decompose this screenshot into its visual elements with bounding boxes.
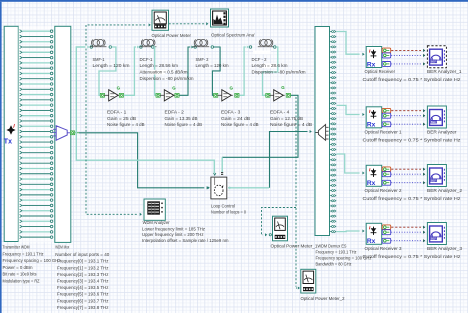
svg-text:Optical Spectrum Ana': Optical Spectrum Ana' [211,33,255,38]
svg-text:Frequency[3] = 193.4 THz: Frequency[3] = 193.4 THz [57,279,109,284]
svg-text:Frequency[5] = 193.6 THz: Frequency[5] = 193.6 THz [57,292,109,297]
wire loop control output [228,187,269,189]
monitor dashed arrow into optical power meter 2 [298,286,300,289]
svg-text:Rx: Rx [367,238,376,245]
svg-text:EDFA - 4: EDFA - 4 [270,110,290,115]
wire demux port to optical receiver 3 [337,230,360,233]
svg-text:G: G [117,85,121,90]
svg-text:Upper frequency limit = 200 T: Upper frequency limit = 200 THz [142,232,204,237]
svg-text:Attenuation = 0.5 dB/km: Attenuation = 0.5 dB/km [140,70,188,75]
svg-text:G: G [281,85,285,90]
wire chain return drop into loop control [221,157,223,173]
svg-text:Cutoff frequency = 0.75 * Symb: Cutoff frequency = 0.75 * Symbol rate Hz [363,196,462,201]
svg-text:Frequency[7] = 193.8 THz: Frequency[7] = 193.8 THz [57,305,109,310]
svg-text:Optical Receiver 1: Optical Receiver 1 [365,130,402,135]
svg-text:Number of loops = 0: Number of loops = 0 [211,209,246,214]
DCF-1 labels [140,57,194,81]
svg-text:Rx: Rx [367,122,376,129]
svg-text:Length = 28.56 km: Length = 28.56 km [140,63,179,68]
WDM demux labels [316,244,373,267]
WDM demux body [315,27,330,236]
fiber DCF-2 coil [258,39,274,46]
WDM mux body [55,26,71,242]
canvas left border [0,2,2,313]
svg-text:Cutoff frequency = 0.75 * Symb: Cutoff frequency = 0.75 * Symbol rate Hz [363,138,462,143]
wire region backing [18,26,55,242]
DCF-2 labels [252,51,306,75]
svg-text:Noise figure = 4 dB: Noise figure = 4 dB [165,122,203,127]
svg-text:Frequency = 193.1 THz: Frequency = 193.1 THz [316,250,358,255]
wire EDFA-1 to DCF-1 [124,47,136,95]
svg-text:EDFA - 2: EDFA - 2 [165,110,185,115]
svg-text:BER Analyzer_3: BER Analyzer_3 [427,246,462,251]
EDFA-4 input connector [266,93,270,97]
wire loop output riser to WDM demux [270,132,308,188]
svg-text:SMF- 2: SMF- 2 [196,57,209,62]
optical power meter block [152,10,169,30]
wire loop control top-left to fiber chain input [76,47,214,173]
SMF-1 output connector [109,46,112,49]
amplifier EDFA-2 [160,90,176,101]
svg-text:BER Analyzer_1: BER Analyzer_1 [427,69,462,74]
DCF-2 input connector [249,46,252,49]
svg-text:Optical Power Meter_2: Optical Power Meter_2 [301,296,345,301]
svg-text:Frequency spacing = 100 GHz: Frequency spacing = 100 GHz [3,258,62,263]
fiber DCF-1 coil [140,39,156,46]
svg-text:Frequency[2] = 193.3 THz: Frequency[2] = 193.3 THz [57,272,109,277]
svg-text:Length = 120 km: Length = 120 km [93,63,130,68]
electrical dashed signal receiver 3 to BER analyzer [391,226,425,243]
wire EDFA-2 to SMF-2 [180,47,191,95]
loop control U1 [211,177,227,199]
SMF-1 labels [93,57,130,68]
electrical dashed signal receiver 1 to BER analyzer [391,109,425,126]
optical receiver 1 block [366,107,382,128]
fiber SMF-2 coil [193,39,209,46]
svg-text:Optical Power Meter: Optical Power Meter [152,33,192,38]
EDFA-2 labels [165,110,203,128]
optical receiver 0 block [366,47,382,68]
DCF-1 input connector [140,46,143,49]
optical receiver 1 labels [363,130,462,143]
WDM analyzer labels [142,220,229,243]
svg-text:Bit rate = 10e9 bits: Bit rate = 10e9 bits [3,272,38,277]
optical receiver 3 labels [363,246,462,259]
svg-text:Rx: Rx [367,180,376,187]
optical receiver 3 block [366,223,382,244]
EDFA-2 output connector [175,93,179,97]
EDFA-3 output connector [235,93,239,97]
monitor dashed branch to optical power meter 1 [262,208,297,235]
BER analyzer 2 block [427,165,446,187]
EDFA-2 input connector [156,93,160,97]
svg-text:Rx: Rx [367,61,376,68]
SMF-2 output connector [211,46,214,49]
WDM mux labels [55,245,109,310]
optical receiver 3 output ports [382,225,391,243]
EDFA-1 input connector [100,93,104,97]
svg-text:Noise figure = 4 dB: Noise figure = 4 dB [270,122,312,127]
svg-text:Gain = 12.75 dB: Gain = 12.75 dB [270,116,303,121]
wire mux output to loop control input [79,133,204,188]
svg-text:BER: BER [431,178,437,182]
optical receiver 0 labels [363,69,462,82]
svg-text:Optical Receiver 3: Optical Receiver 3 [365,246,402,251]
wire demux port to optical receiver 0 [337,32,360,55]
electrical dashed signal receiver 0 to BER analyzer [391,49,425,66]
WDM demux output ports (40) [330,30,336,232]
optical power meter 2 block [301,269,316,293]
BER analyzer 0 block [427,46,446,68]
DCF-2 output connector [274,46,277,49]
svg-text:BER Analyzer: BER Analyzer [427,130,457,135]
svg-text:Frequency[6] = 193.7 THz: Frequency[6] = 193.7 THz [57,298,109,303]
wire demux port to optical receiver 1 [337,105,360,114]
WDM mux funnel symbol [53,126,70,140]
svg-text:BER: BER [431,60,437,64]
WDM analyzer block [144,199,165,220]
optical receiver 2 block [366,165,382,186]
svg-text:Frequency = 193.1 THz: Frequency = 193.1 THz [3,252,45,257]
monitor dashed line chain input down to WDM analyzer [86,49,138,215]
svg-text:Length = 120 km: Length = 120 km [196,63,229,68]
svg-text:BER: BER [431,120,437,124]
svg-text:Optical Receiver: Optical Receiver [365,69,396,74]
svg-text:Modulation type = RZ: Modulation type = RZ [3,279,40,284]
monitor dashed line chain input to optical power meter [86,25,147,46]
optical receiver 0 output ports [382,48,391,66]
svg-text:Cutoff frequency = 0.75 * Symb: Cutoff frequency = 0.75 * Symbol rate Hz [363,77,462,82]
svg-text:WDM Analyzer: WDM Analyzer [143,220,170,225]
svg-text:Length = 28.6 km: Length = 28.6 km [252,63,288,68]
svg-text:EDFA - 3: EDFA - 3 [221,110,241,115]
loop control input arrow [208,186,210,189]
svg-text:Frequency[0] = 193.1 THz: Frequency[0] = 193.1 THz [57,259,109,264]
svg-text:G: G [230,85,234,90]
amplifier EDFA-1 [104,90,120,101]
svg-text:G: G [172,85,176,90]
svg-text:Dispersion = -80 ps/nm/km: Dispersion = -80 ps/nm/km [140,76,194,81]
svg-text:SMF-1: SMF-1 [93,57,105,62]
optical spectrum analyzer block [211,9,229,27]
svg-text:Gain = 25 dB: Gain = 25 dB [107,116,136,121]
svg-text:Lower frequency limit = 185 T: Lower frequency limit = 185 THz [142,226,206,231]
wire DCF-2 to EDFA-4 [263,47,278,95]
fiber SMF-1 coil [90,39,106,46]
loop control ports top [214,173,224,176]
BER analyzer 1 block [427,106,446,128]
electrical dashed signal receiver 2 to BER analyzer [391,168,425,185]
svg-text:Transmitter WDM: Transmitter WDM [3,245,30,250]
canvas top border [0,0,468,2]
EDFA-3 labels [221,110,259,128]
wire EDFA-3 to DCF-2 [239,47,245,95]
svg-text:Tx: Tx [4,139,12,146]
optical receiver 1 output ports [382,108,391,126]
svg-text:BER: BER [431,236,437,240]
svg-text:WDM Mux: WDM Mux [55,245,69,250]
svg-text:Dispersion = -80 ps/nm/km: Dispersion = -80 ps/nm/km [252,70,306,75]
optical receiver 2 labels [363,188,462,201]
svg-text:Interpolation offset = Sample: Interpolation offset = Sample rate / 125… [142,238,229,243]
svg-text:Gain = 13.35 dB: Gain = 13.35 dB [165,116,198,121]
optical power meter 1 block [273,216,288,241]
transmitter output wires to WDM mux (40 channels) [20,30,53,239]
EDFA-1 labels [107,110,145,128]
svg-text:EDFA - 1: EDFA - 1 [107,110,127,115]
svg-text:Loop Control: Loop Control [211,204,235,209]
svg-text:Number of input ports = 40: Number of input ports = 40 [55,252,109,257]
svg-text:Cutoff frequency = 0.75 * Symb: Cutoff frequency = 0.75 * Symbol rate Hz [363,254,462,259]
svg-text:Optical Power Meter_1: Optical Power Meter_1 [271,244,318,249]
wire EDFA-4 to loop control top-right (chain return) [222,95,298,157]
svg-text:Noise figure = 4 dB: Noise figure = 4 dB [221,122,259,127]
optical receiver 2 output ports [382,167,391,185]
BER analyzer 3 block [427,223,446,245]
transmitter WDM labels [3,245,62,284]
svg-text:Gain = 24 dB: Gain = 24 dB [221,116,250,121]
EDFA-3 input connector [214,93,218,97]
svg-text:Power = 0 dBm: Power = 0 dBm [3,265,33,270]
wire SMF-2 to EDFA-3 [212,47,220,95]
EDFA-4 output connector [286,93,290,97]
svg-text:Bandwidth = 80 GHz: Bandwidth = 80 GHz [316,262,353,267]
amplifier EDFA-4 [269,90,285,101]
SMF-2 input connector [194,46,197,49]
wire SMF-1 to EDFA-1 [99,47,116,95]
amplifier EDFA-3 [217,90,233,101]
svg-text:DCF - 2: DCF - 2 [252,57,267,62]
fiber chain input connector [90,46,93,49]
monitor dashed line power meter to optical spectrum analyzer [169,23,205,25]
EDFA-4 labels [270,110,312,128]
svg-text:Noise figure = 4 dB: Noise figure = 4 dB [107,122,145,127]
svg-text:DCF-1: DCF-1 [140,57,153,62]
svg-text:Frequency[1] = 193.2 THz: Frequency[1] = 193.2 THz [57,265,109,270]
wire DCF-1 to EDFA-2 [154,47,156,95]
svg-text:Frequency[4] = 193.5 THz: Frequency[4] = 193.5 THz [57,285,109,290]
SMF-2 labels [196,57,229,68]
EDFA-1 output connector [119,93,123,97]
svg-text:WDM Demux ES: WDM Demux ES [318,244,347,249]
WDM demux funnel symbol [315,125,328,141]
transmitter star icon [6,124,15,135]
WDM mux output connector [71,131,75,135]
DCF-1 output connector [152,46,155,49]
svg-text:BER Analyzer_2: BER Analyzer_2 [427,188,462,193]
monitor dashed line EDFA-4 output down to power meters [295,97,297,287]
transmitter WDM body [4,26,18,241]
svg-text:Optical Receiver 2: Optical Receiver 2 [365,188,402,193]
wire demux port to optical receiver 2 [337,154,360,173]
